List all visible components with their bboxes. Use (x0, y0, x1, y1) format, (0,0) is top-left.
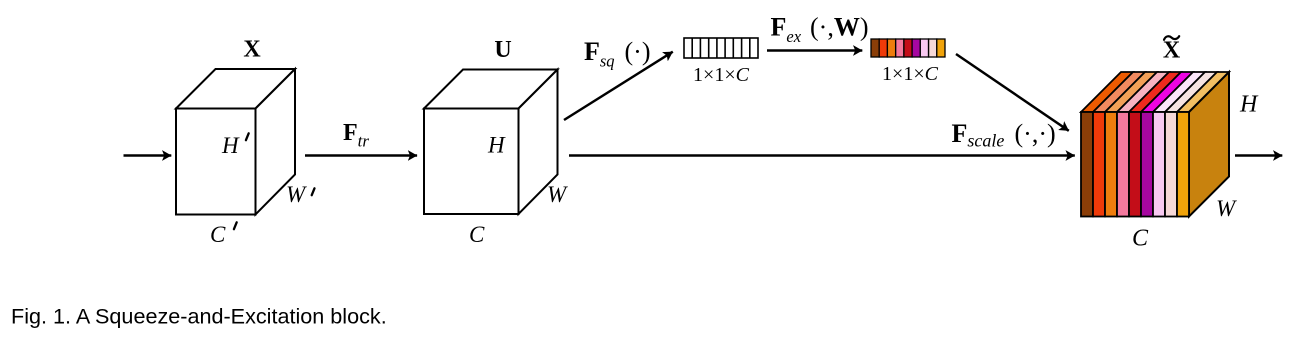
arrow from excitation bar to output cube (956, 54, 1069, 131)
svg-text:H: H (221, 133, 240, 158)
excitation bar 1x1xC (colored cells) (871, 39, 945, 57)
cube X front face (176, 109, 256, 215)
svg-text:X: X (1163, 38, 1181, 64)
input arrow (124, 154, 172, 157)
svg-text:W: W (1216, 196, 1237, 221)
output cube X~ front slab faces (1081, 112, 1189, 217)
svg-text:X: X (243, 37, 261, 63)
svg-text:C: C (469, 222, 485, 247)
cube U top face (424, 70, 558, 109)
svg-text:U: U (494, 37, 511, 63)
cube U front face (424, 109, 519, 215)
cube X right face (256, 69, 296, 215)
svg-text:Ftr: Ftr (343, 120, 369, 151)
svg-text:W: W (286, 182, 307, 207)
svg-text:W: W (547, 182, 568, 207)
cube U right face (519, 70, 558, 215)
arrow F_tr (305, 154, 417, 157)
svg-text:Fsq(·): Fsq(·) (584, 37, 650, 71)
arrow F_ex (767, 49, 862, 52)
long arrow F_scale (569, 154, 1075, 157)
svg-text:Fscale(·,·): Fscale(·,·) (952, 119, 1056, 151)
svg-text:1×1×C: 1×1×C (882, 63, 939, 85)
svg-text:C: C (1132, 226, 1149, 252)
svg-text:C: C (210, 222, 226, 247)
squeeze bar 1x1xC (white cells) (684, 38, 758, 58)
output arrow (1235, 154, 1282, 157)
svg-text:H: H (487, 133, 506, 158)
svg-text:H: H (1239, 92, 1259, 118)
arrow F_sq diagonal (564, 52, 673, 120)
output cube X~ top slab faces (1081, 72, 1229, 112)
output cube X~ right face (1189, 72, 1229, 217)
cube X top face (176, 69, 295, 109)
svg-text:Fig. 1. A Squeeze-and-Excitati: Fig. 1. A Squeeze-and-Excitation block. (11, 304, 387, 329)
svg-text:Fex(·,W): Fex(·,W) (771, 13, 869, 47)
svg-text:1×1×C: 1×1×C (693, 64, 750, 86)
